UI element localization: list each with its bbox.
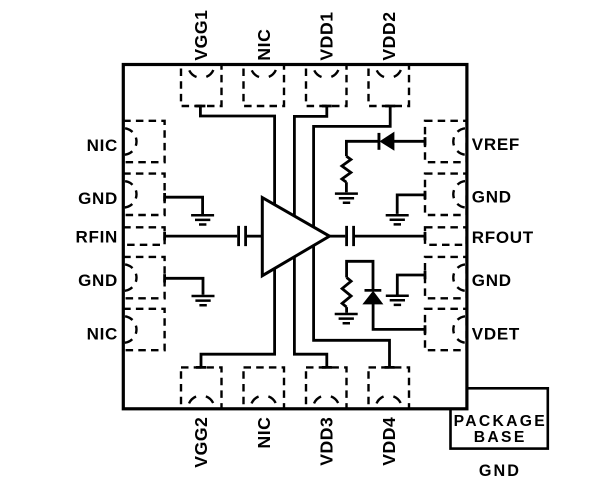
capacitor C2 (output) xyxy=(347,226,354,246)
svg-text:NIC: NIC xyxy=(87,325,118,344)
svg-text:RFIN: RFIN xyxy=(76,228,118,247)
pad GND right bottom xyxy=(425,257,467,298)
pad NIC bottom xyxy=(244,367,285,408)
wire RFOUT xyxy=(355,232,425,240)
ground (left bottom) xyxy=(192,296,215,305)
svg-text:GND: GND xyxy=(78,271,118,290)
wire VREF xyxy=(394,137,425,145)
pad VDD3 xyxy=(306,367,347,408)
pad VGG1 xyxy=(181,65,222,106)
svg-text:VDD2: VDD2 xyxy=(379,11,399,60)
svg-text:VREF: VREF xyxy=(472,135,520,154)
wire RFIN xyxy=(165,232,238,240)
svg-text:VGG2: VGG2 xyxy=(191,417,211,468)
svg-text:GND: GND xyxy=(472,271,512,290)
wire GND right bottom xyxy=(397,271,425,295)
pad VGG2 xyxy=(181,367,222,408)
svg-text:BASE: BASE xyxy=(474,429,527,446)
ground (right top) xyxy=(386,215,409,224)
svg-text:VDD3: VDD3 xyxy=(316,417,336,466)
pad GND left bottom xyxy=(123,257,164,298)
svg-text:NIC: NIC xyxy=(254,417,274,449)
pad VDD4 xyxy=(369,367,410,408)
pad GND right top xyxy=(425,174,467,215)
diode D1 (VREF) xyxy=(378,133,394,150)
svg-text:VDD1: VDD1 xyxy=(316,11,336,60)
wire GND left bottom xyxy=(165,274,203,295)
wire amp output xyxy=(330,235,346,238)
resistor R2 xyxy=(342,278,351,313)
ground (left top) xyxy=(191,215,214,224)
ground (R2) xyxy=(335,314,358,323)
pad VDET xyxy=(425,309,467,350)
wire diode D2 to VDET pad xyxy=(373,304,425,334)
wire cathode to resistor R1 xyxy=(346,141,377,156)
wire VDET branch top xyxy=(347,261,373,289)
pad GND left top xyxy=(123,174,164,215)
wire amp input xyxy=(247,235,262,238)
svg-text:VDD4: VDD4 xyxy=(379,417,399,466)
resistor R1 xyxy=(342,156,351,192)
capacitor C1 (input) xyxy=(239,226,246,246)
svg-text:GND: GND xyxy=(472,188,512,207)
package base box xyxy=(451,388,548,448)
svg-text:NIC: NIC xyxy=(254,29,274,61)
diode D2 (VDET) xyxy=(363,289,382,304)
wire GND right top xyxy=(397,191,425,214)
wire net VDD1-VDD3 xyxy=(294,106,331,367)
pad NIC left top xyxy=(123,121,164,162)
pad RFOUT xyxy=(425,227,467,245)
svg-text:GND: GND xyxy=(479,462,521,480)
pad VDD1 xyxy=(306,65,347,106)
svg-text:VGG1: VGG1 xyxy=(191,10,211,61)
op-amp U1 xyxy=(262,198,329,276)
svg-text:VDET: VDET xyxy=(472,325,520,344)
svg-text:PACKAGE: PACKAGE xyxy=(454,413,547,430)
wire GND left top xyxy=(165,193,203,214)
ground (R1) xyxy=(335,194,358,203)
wire net VGG1-VGG2 xyxy=(195,106,274,367)
ground (right bottom) xyxy=(386,296,409,305)
pad VREF xyxy=(425,121,467,162)
svg-text:GND: GND xyxy=(78,189,118,208)
svg-text:NIC: NIC xyxy=(87,136,118,155)
pad NIC left bottom xyxy=(123,309,164,350)
pad RFIN xyxy=(123,227,164,245)
svg-text:RFOUT: RFOUT xyxy=(472,228,534,247)
wire net VDD2-VDD4 xyxy=(314,106,396,367)
pad NIC top xyxy=(244,65,285,106)
chip outline xyxy=(123,65,467,409)
pad VDD2 xyxy=(369,65,410,106)
